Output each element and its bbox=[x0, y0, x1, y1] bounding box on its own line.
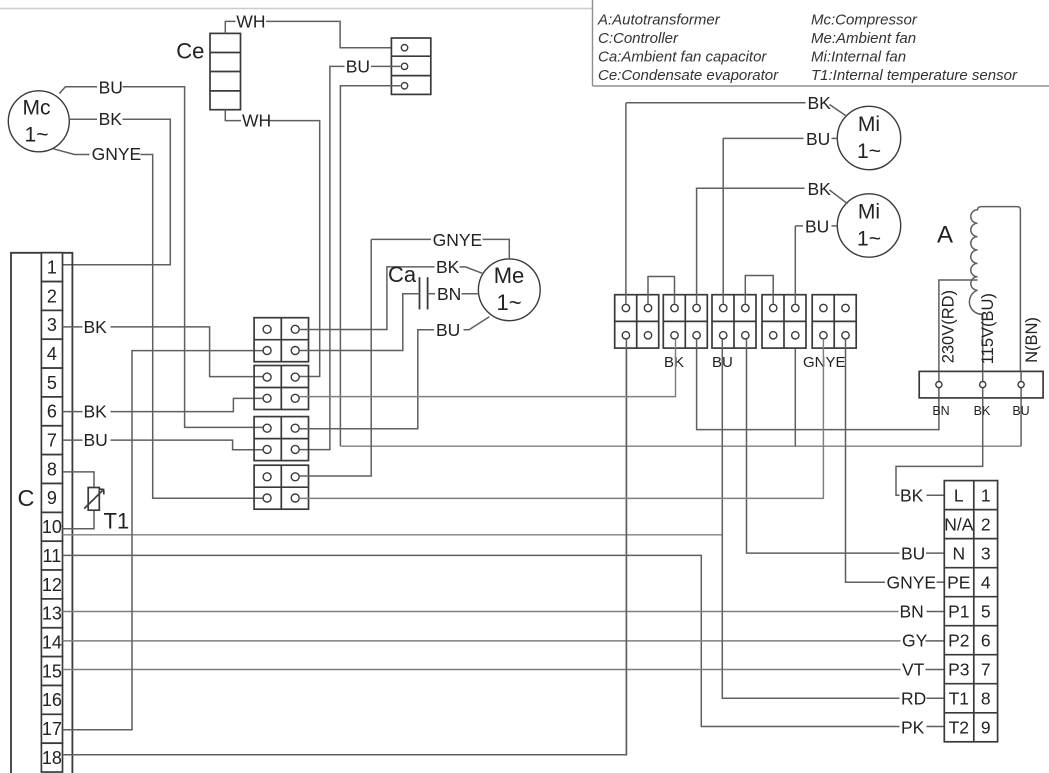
svg-text:BK: BK bbox=[436, 257, 460, 277]
svg-text:BK: BK bbox=[808, 179, 832, 199]
svg-text:BK: BK bbox=[99, 109, 123, 129]
svg-text:PE: PE bbox=[947, 572, 970, 592]
svg-text:4: 4 bbox=[47, 344, 57, 364]
svg-text:BU: BU bbox=[436, 320, 460, 340]
svg-text:BU: BU bbox=[806, 129, 830, 149]
svg-text:BU: BU bbox=[346, 57, 370, 77]
svg-text:9: 9 bbox=[981, 718, 991, 738]
svg-text:RD: RD bbox=[901, 689, 926, 709]
svg-text:15: 15 bbox=[42, 661, 62, 681]
svg-text:Me:Ambient fan: Me:Ambient fan bbox=[811, 30, 916, 47]
svg-text:Mc: Mc bbox=[23, 97, 51, 120]
svg-text:Ca:Ambient fan capacitor: Ca:Ambient fan capacitor bbox=[598, 48, 767, 65]
svg-text:GNYE: GNYE bbox=[433, 230, 483, 250]
svg-text:L: L bbox=[954, 485, 964, 505]
svg-text:P1: P1 bbox=[948, 601, 969, 621]
svg-text:BN: BN bbox=[932, 404, 949, 418]
svg-text:WH: WH bbox=[236, 11, 265, 31]
svg-text:13: 13 bbox=[42, 604, 62, 624]
svg-text:2: 2 bbox=[47, 286, 57, 306]
svg-text:17: 17 bbox=[42, 719, 62, 739]
svg-text:10: 10 bbox=[42, 517, 62, 537]
svg-text:BU: BU bbox=[901, 543, 925, 563]
svg-text:N: N bbox=[952, 543, 965, 563]
svg-text:P2: P2 bbox=[948, 630, 969, 650]
svg-text:12: 12 bbox=[42, 575, 62, 595]
svg-text:GY: GY bbox=[902, 630, 928, 650]
svg-text:P3: P3 bbox=[948, 659, 969, 679]
svg-text:BK: BK bbox=[84, 317, 108, 337]
svg-text:9: 9 bbox=[47, 488, 57, 508]
svg-text:N/A: N/A bbox=[944, 514, 974, 534]
svg-text:BU: BU bbox=[84, 430, 108, 450]
svg-text:7: 7 bbox=[981, 659, 991, 679]
svg-text:11: 11 bbox=[43, 546, 62, 566]
svg-text:WH: WH bbox=[242, 111, 271, 131]
svg-text:C:Controller: C:Controller bbox=[598, 30, 679, 47]
svg-text:T1: T1 bbox=[949, 689, 969, 709]
svg-text:7: 7 bbox=[47, 431, 57, 451]
svg-text:PK: PK bbox=[901, 718, 925, 738]
svg-text:6: 6 bbox=[47, 402, 57, 422]
svg-text:N(BN): N(BN) bbox=[1023, 317, 1041, 363]
svg-text:BU: BU bbox=[1012, 404, 1029, 418]
svg-text:Mi: Mi bbox=[858, 201, 880, 224]
svg-text:6: 6 bbox=[981, 630, 991, 650]
svg-text:1: 1 bbox=[981, 485, 991, 505]
svg-text:Ce:Condensate evaporator: Ce:Condensate evaporator bbox=[598, 67, 779, 84]
svg-text:BK: BK bbox=[664, 354, 684, 371]
svg-text:3: 3 bbox=[47, 315, 57, 335]
svg-text:115V(BU): 115V(BU) bbox=[979, 293, 997, 364]
svg-text:1~: 1~ bbox=[496, 290, 521, 315]
svg-text:3: 3 bbox=[981, 543, 991, 563]
svg-text:1~: 1~ bbox=[25, 124, 49, 147]
svg-text:Ce: Ce bbox=[176, 38, 204, 63]
svg-text:5: 5 bbox=[981, 601, 991, 621]
svg-text:1~: 1~ bbox=[857, 228, 881, 251]
svg-text:Mi:Internal fan: Mi:Internal fan bbox=[811, 48, 906, 65]
svg-text:8: 8 bbox=[47, 459, 57, 479]
svg-text:BK: BK bbox=[84, 402, 108, 422]
svg-text:T1:Internal temperature sensor: T1:Internal temperature sensor bbox=[811, 67, 1018, 84]
svg-text:BK: BK bbox=[900, 485, 924, 505]
svg-text:4: 4 bbox=[981, 572, 991, 592]
svg-text:16: 16 bbox=[42, 690, 62, 710]
svg-text:230V(RD): 230V(RD) bbox=[940, 290, 958, 363]
svg-text:GNYE: GNYE bbox=[92, 144, 142, 164]
svg-text:BU: BU bbox=[99, 78, 123, 98]
svg-text:GNYE: GNYE bbox=[887, 572, 937, 592]
svg-text:BN: BN bbox=[900, 601, 924, 621]
svg-text:BK: BK bbox=[808, 93, 832, 113]
svg-text:18: 18 bbox=[42, 748, 62, 768]
svg-text:BN: BN bbox=[437, 284, 461, 304]
svg-text:Mi: Mi bbox=[858, 113, 880, 136]
svg-text:2: 2 bbox=[981, 514, 991, 534]
svg-text:T2: T2 bbox=[949, 718, 969, 738]
svg-text:1~: 1~ bbox=[857, 140, 881, 163]
svg-text:T1: T1 bbox=[104, 509, 130, 534]
svg-text:BU: BU bbox=[805, 216, 829, 236]
svg-text:8: 8 bbox=[981, 689, 991, 709]
svg-text:1: 1 bbox=[47, 257, 57, 277]
svg-text:14: 14 bbox=[42, 633, 62, 653]
svg-text:GNYE: GNYE bbox=[803, 354, 846, 371]
svg-text:Me: Me bbox=[494, 263, 525, 288]
svg-text:Mc:Compressor: Mc:Compressor bbox=[811, 12, 918, 29]
svg-text:5: 5 bbox=[47, 373, 57, 393]
svg-text:VT: VT bbox=[902, 660, 925, 680]
svg-text:A:Autotransformer: A:Autotransformer bbox=[597, 12, 721, 29]
svg-text:Ca: Ca bbox=[388, 262, 417, 287]
svg-text:C: C bbox=[18, 485, 35, 511]
svg-text:A: A bbox=[937, 222, 953, 249]
